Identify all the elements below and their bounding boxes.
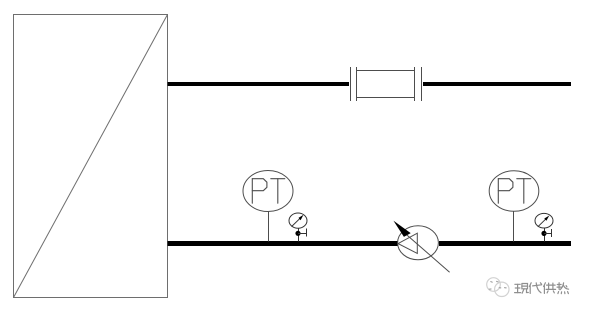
watermark text 现代供热	[515, 283, 569, 294]
char re	[558, 283, 560, 290]
pressure gauge left shutoff dot	[295, 231, 300, 236]
pressure transmitter PT left balloon	[243, 171, 293, 212]
flow meter body	[357, 71, 415, 98]
pressure transmitter PT left label	[252, 179, 284, 204]
pressure gauge right needle	[538, 216, 550, 227]
watermark logo icon	[487, 278, 509, 297]
char xian	[515, 283, 520, 285]
watermark logo icon specks	[489, 281, 506, 289]
pressure transmitter PT right label	[498, 179, 531, 204]
supply pipe (top)	[168, 82, 572, 86]
control valve body circle	[398, 226, 439, 260]
pressure transmitter PT right tap line	[513, 211, 515, 241]
return pipe (bottom)	[168, 241, 572, 246]
pressure gauge left test branch	[298, 229, 307, 237]
flow meter right flange	[415, 67, 422, 101]
control valve actuator arrowhead	[393, 221, 410, 237]
pressure gauge right shutoff dot	[541, 231, 546, 236]
pressure gauge left needle	[292, 215, 304, 227]
char gong	[544, 283, 546, 287]
control valve triangle	[398, 233, 417, 253]
pressure gauge right stem	[544, 228, 546, 242]
control valve actuator stem	[406, 234, 450, 272]
pressure transmitter PT left tap line	[268, 212, 270, 242]
flow meter left flange	[351, 67, 357, 101]
heat exchanger	[14, 15, 168, 298]
pressure gauge right test branch	[544, 229, 552, 237]
pressure transmitter PT right balloon	[489, 171, 539, 212]
char dai	[529, 283, 531, 287]
pressure gauge left dial	[289, 213, 307, 228]
pressure gauge right dial	[535, 213, 553, 228]
pressure gauge left stem	[298, 228, 300, 241]
